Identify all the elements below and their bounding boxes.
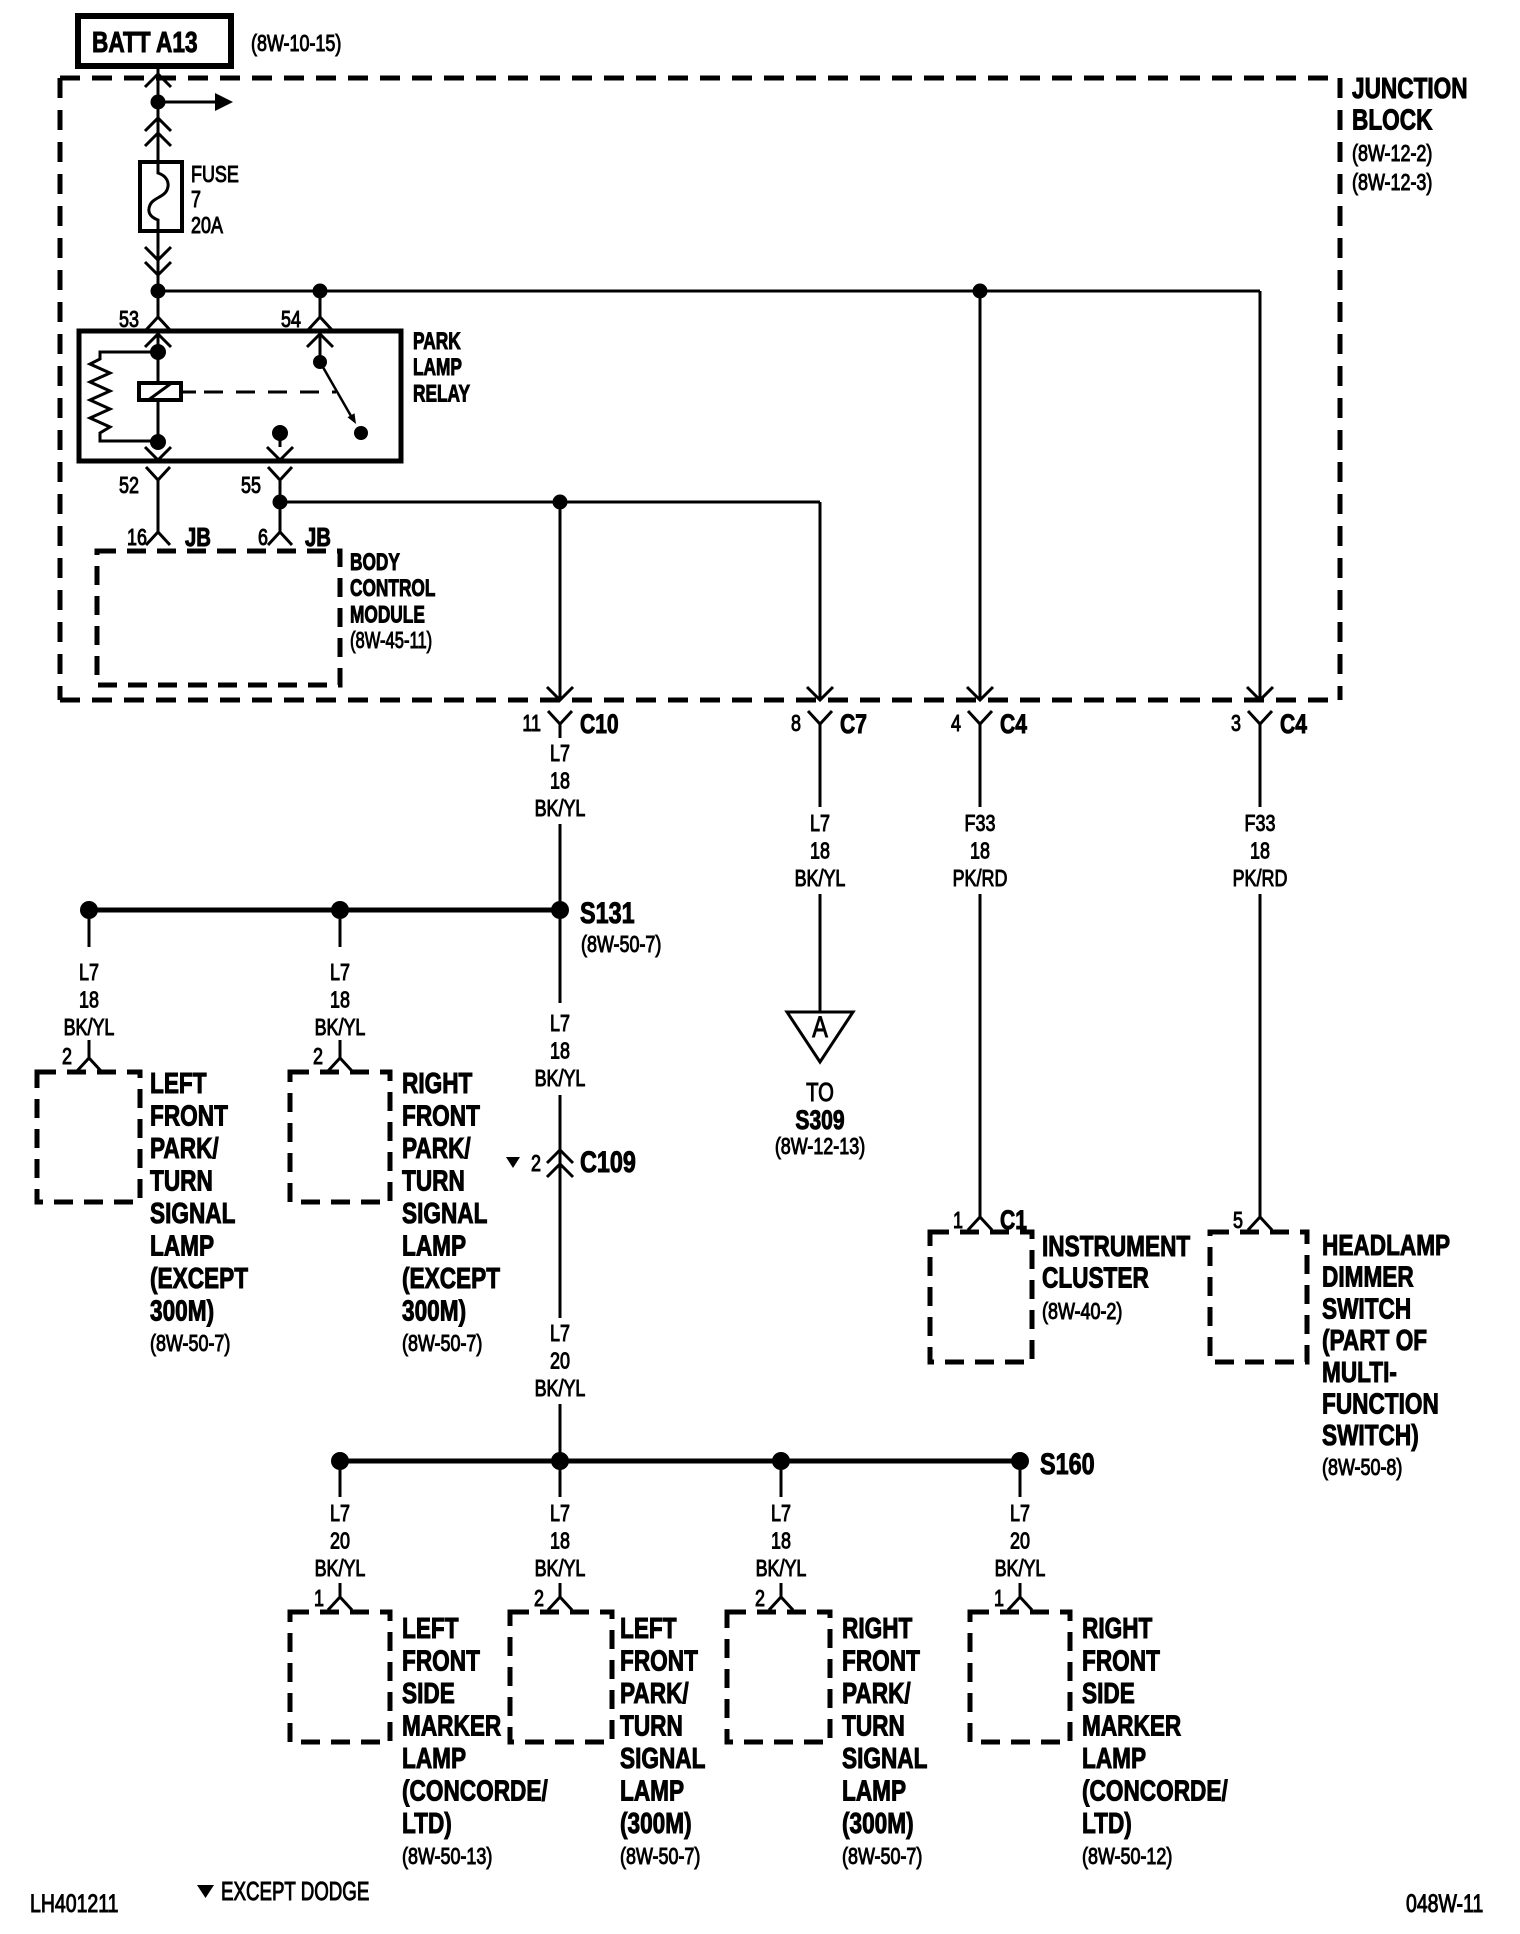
svg-text:PK/RD: PK/RD (1233, 866, 1288, 892)
svg-text:L7: L7 (330, 1501, 350, 1527)
svg-text:4: 4 (951, 711, 961, 737)
svg-text:SIGNAL: SIGNAL (402, 1196, 488, 1229)
svg-text:2: 2 (531, 1151, 541, 1177)
svg-text:L7: L7 (550, 1501, 570, 1527)
svg-text:(EXCEPT: (EXCEPT (150, 1261, 248, 1294)
svg-text:16: 16 (127, 525, 147, 551)
svg-text:6: 6 (258, 525, 268, 551)
svg-text:7: 7 (191, 187, 201, 213)
svg-text:JB: JB (185, 523, 211, 552)
svg-text:MODULE: MODULE (350, 602, 425, 628)
svg-text:C4: C4 (1000, 710, 1027, 740)
svg-text:LEFT: LEFT (620, 1611, 677, 1644)
svg-text:C7: C7 (840, 710, 867, 740)
svg-text:18: 18 (771, 1528, 791, 1554)
svg-text:(CONCORDE/: (CONCORDE/ (1082, 1774, 1228, 1807)
svg-text:FRONT: FRONT (402, 1644, 480, 1677)
svg-text:FRONT: FRONT (620, 1644, 698, 1677)
svg-text:1: 1 (994, 1586, 1004, 1612)
svg-text:LAMP: LAMP (413, 355, 462, 381)
svg-text:LEFT: LEFT (150, 1066, 207, 1099)
svg-text:PARK/: PARK/ (150, 1131, 219, 1164)
svg-text:S309: S309 (795, 1106, 844, 1136)
svg-text:FRONT: FRONT (150, 1099, 228, 1132)
svg-text:SWITCH: SWITCH (1322, 1292, 1411, 1325)
svg-text:MARKER: MARKER (402, 1709, 501, 1742)
svg-text:52: 52 (119, 473, 139, 499)
svg-text:BK/YL: BK/YL (756, 1556, 807, 1582)
svg-text:20: 20 (1010, 1528, 1030, 1554)
svg-text:BK/YL: BK/YL (535, 1556, 586, 1582)
svg-text:S160: S160 (1040, 1447, 1095, 1480)
svg-text:20: 20 (550, 1348, 570, 1374)
svg-text:FRONT: FRONT (402, 1099, 480, 1132)
svg-text:(8W-12-3): (8W-12-3) (1352, 170, 1432, 196)
svg-text:A: A (812, 1010, 828, 1043)
svg-text:L7: L7 (550, 741, 570, 767)
svg-text:(8W-50-7): (8W-50-7) (402, 1331, 482, 1357)
svg-text:1: 1 (314, 1586, 324, 1612)
svg-text:20: 20 (330, 1528, 350, 1554)
svg-text:PARK/: PARK/ (402, 1131, 471, 1164)
svg-text:300M): 300M) (402, 1294, 466, 1327)
svg-text:18: 18 (810, 838, 830, 864)
svg-text:BK/YL: BK/YL (315, 1556, 366, 1582)
svg-text:LAMP: LAMP (620, 1774, 684, 1807)
svg-text:L7: L7 (1010, 1501, 1030, 1527)
svg-text:BK/YL: BK/YL (535, 1376, 586, 1402)
svg-text:20A: 20A (191, 213, 223, 239)
svg-text:18: 18 (550, 768, 570, 794)
svg-text:SIGNAL: SIGNAL (842, 1741, 928, 1774)
svg-text:INSTRUMENT: INSTRUMENT (1042, 1229, 1190, 1262)
svg-text:EXCEPT DODGE: EXCEPT DODGE (221, 1876, 369, 1906)
svg-text:L7: L7 (771, 1501, 791, 1527)
svg-text:SIGNAL: SIGNAL (620, 1741, 706, 1774)
svg-text:18: 18 (330, 987, 350, 1013)
svg-text:LAMP: LAMP (150, 1229, 214, 1262)
svg-text:HEADLAMP: HEADLAMP (1322, 1228, 1450, 1261)
svg-text:LTD): LTD) (1082, 1806, 1132, 1839)
svg-text:TURN: TURN (402, 1164, 465, 1197)
svg-text:FUSE: FUSE (191, 162, 239, 188)
svg-text:2: 2 (755, 1586, 765, 1612)
svg-text:2: 2 (62, 1044, 72, 1070)
svg-text:TURN: TURN (150, 1164, 213, 1197)
svg-text:LAMP: LAMP (1082, 1741, 1146, 1774)
svg-text:PARK: PARK (413, 328, 461, 354)
svg-text:(PART OF: (PART OF (1322, 1323, 1427, 1356)
svg-text:BK/YL: BK/YL (995, 1556, 1046, 1582)
svg-text:RIGHT: RIGHT (402, 1066, 472, 1099)
svg-text:BK/YL: BK/YL (535, 796, 586, 822)
svg-text:(8W-50-7): (8W-50-7) (620, 1844, 700, 1870)
svg-text:18: 18 (970, 838, 990, 864)
svg-text:C4: C4 (1280, 710, 1307, 740)
svg-text:RELAY: RELAY (413, 381, 470, 407)
svg-text:FRONT: FRONT (1082, 1644, 1160, 1677)
svg-text:DIMMER: DIMMER (1322, 1260, 1414, 1293)
svg-text:LEFT: LEFT (402, 1611, 459, 1644)
svg-text:LAMP: LAMP (402, 1741, 466, 1774)
svg-text:8: 8 (791, 711, 801, 737)
svg-text:L7: L7 (550, 1321, 570, 1347)
svg-text:LAMP: LAMP (402, 1229, 466, 1262)
svg-text:F33: F33 (965, 811, 996, 837)
svg-text:BLOCK: BLOCK (1352, 103, 1433, 136)
svg-text:(8W-50-8): (8W-50-8) (1322, 1455, 1402, 1481)
svg-text:CONTROL: CONTROL (350, 576, 436, 602)
svg-text:55: 55 (241, 473, 261, 499)
svg-text:18: 18 (550, 1528, 570, 1554)
svg-text:(CONCORDE/: (CONCORDE/ (402, 1774, 548, 1807)
svg-text:RIGHT: RIGHT (842, 1611, 912, 1644)
svg-text:FUNCTION: FUNCTION (1322, 1387, 1439, 1420)
svg-text:MULTI-: MULTI- (1322, 1355, 1397, 1388)
svg-text:300M): 300M) (150, 1294, 214, 1327)
svg-text:(8W-45-11): (8W-45-11) (350, 628, 432, 653)
svg-text:SIGNAL: SIGNAL (150, 1196, 236, 1229)
svg-text:BK/YL: BK/YL (795, 866, 846, 892)
svg-text:(300M): (300M) (842, 1806, 914, 1839)
svg-text:BK/YL: BK/YL (315, 1015, 366, 1041)
svg-text:(8W-12-13): (8W-12-13) (775, 1134, 865, 1160)
svg-text:(8W-12-2): (8W-12-2) (1352, 141, 1432, 167)
svg-text:S131: S131 (580, 896, 635, 929)
svg-text:RIGHT: RIGHT (1082, 1611, 1152, 1644)
svg-text:FRONT: FRONT (842, 1644, 920, 1677)
svg-text:PARK/: PARK/ (620, 1676, 689, 1709)
svg-text:(EXCEPT: (EXCEPT (402, 1261, 500, 1294)
svg-text:LTD): LTD) (402, 1806, 452, 1839)
svg-text:(8W-50-7): (8W-50-7) (150, 1331, 230, 1357)
svg-text:LAMP: LAMP (842, 1774, 906, 1807)
svg-text:L7: L7 (330, 960, 350, 986)
svg-text:C10: C10 (580, 710, 619, 740)
svg-text:PK/RD: PK/RD (953, 866, 1008, 892)
svg-text:(8W-50-13): (8W-50-13) (402, 1844, 492, 1870)
svg-text:CLUSTER: CLUSTER (1042, 1261, 1149, 1294)
svg-text:PARK/: PARK/ (842, 1676, 911, 1709)
svg-text:BATT A13: BATT A13 (92, 25, 198, 58)
svg-text:(8W-40-2): (8W-40-2) (1042, 1299, 1122, 1325)
svg-text:3: 3 (1231, 711, 1241, 737)
svg-text:SIDE: SIDE (1082, 1676, 1135, 1709)
svg-text:LH401211: LH401211 (30, 1890, 119, 1918)
svg-text:SIDE: SIDE (402, 1676, 455, 1709)
svg-text:(300M): (300M) (620, 1806, 692, 1839)
svg-text:18: 18 (1250, 838, 1270, 864)
svg-text:2: 2 (313, 1044, 323, 1070)
svg-text:SWITCH): SWITCH) (1322, 1418, 1419, 1451)
svg-text:BK/YL: BK/YL (535, 1066, 586, 1092)
svg-text:2: 2 (534, 1586, 544, 1612)
svg-text:L7: L7 (79, 960, 99, 986)
svg-text:(8W-10-15): (8W-10-15) (251, 31, 341, 57)
svg-text:11: 11 (522, 711, 541, 737)
svg-text:TURN: TURN (842, 1709, 905, 1742)
svg-text:L7: L7 (810, 811, 830, 837)
svg-text:(8W-50-7): (8W-50-7) (842, 1844, 922, 1870)
svg-text:TURN: TURN (620, 1709, 683, 1742)
svg-text:C109: C109 (580, 1145, 636, 1178)
svg-text:BODY: BODY (350, 549, 400, 575)
svg-text:BK/YL: BK/YL (64, 1015, 115, 1041)
svg-text:JUNCTION: JUNCTION (1352, 71, 1468, 104)
svg-text:18: 18 (79, 987, 99, 1013)
svg-text:(8W-50-12): (8W-50-12) (1082, 1844, 1172, 1870)
svg-text:F33: F33 (1245, 811, 1276, 837)
svg-text:(8W-50-7): (8W-50-7) (581, 932, 661, 958)
svg-text:MARKER: MARKER (1082, 1709, 1181, 1742)
svg-text:L7: L7 (550, 1011, 570, 1037)
svg-text:048W-11: 048W-11 (1406, 1890, 1483, 1918)
svg-text:TO: TO (806, 1078, 834, 1107)
svg-text:JB: JB (305, 523, 331, 552)
svg-text:18: 18 (550, 1038, 570, 1064)
